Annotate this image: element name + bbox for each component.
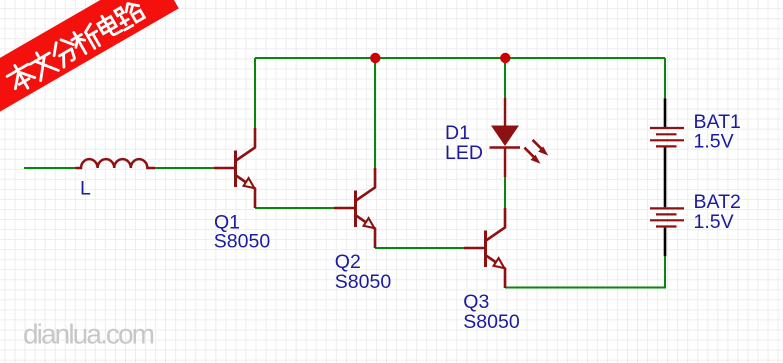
LED D1 [490, 98, 549, 177]
wire LED cathode to Q3 collector [504, 177, 506, 209]
glyph lu [114, 0, 146, 30]
glyph fen [49, 36, 81, 69]
svg-text:S8050: S8050 [335, 271, 392, 293]
glyph ben [4, 59, 38, 94]
wire Q1 emitter to Q2 base [255, 207, 335, 209]
svg-text:Q2: Q2 [335, 251, 361, 273]
wire between batteries [664, 148, 667, 208]
wire top rail [255, 57, 665, 59]
banner ribbon [0, 0, 179, 118]
wire inductor to Q1 base [155, 167, 214, 169]
svg-text:dianlua.com: dianlua.com [23, 319, 154, 350]
wire input left [24, 167, 76, 169]
transistor Q3 [464, 208, 505, 288]
svg-text:1.5V: 1.5V [694, 131, 734, 153]
junction node B [500, 53, 510, 63]
svg-text:Q3: Q3 [463, 291, 489, 313]
wire bottom rail [505, 256, 665, 287]
svg-text:BAT1: BAT1 [694, 111, 741, 133]
glyph dian [95, 11, 121, 39]
glyph wen [27, 47, 59, 81]
svg-text:L: L [80, 178, 91, 200]
svg-text:1.5V: 1.5V [694, 211, 734, 233]
wire LED anode riser [504, 58, 506, 98]
transistor Q1 [214, 128, 255, 208]
svg-text:S8050: S8050 [214, 231, 271, 253]
inductor L [76, 159, 156, 168]
battery BAT2 [650, 208, 684, 226]
battery BAT2 pin bottom [664, 228, 667, 257]
junction node A [370, 53, 380, 63]
wire Q2 collector riser [374, 58, 376, 169]
transistor Q2 [334, 168, 375, 248]
svg-text:S8050: S8050 [463, 311, 520, 333]
wire Q1 collector riser [254, 58, 256, 128]
svg-text:D1: D1 [445, 122, 470, 144]
battery BAT1 pin top [664, 98, 667, 127]
glyph xi [69, 22, 104, 56]
svg-text:LED: LED [445, 142, 483, 164]
wire right side top [664, 58, 666, 98]
svg-text:BAT2: BAT2 [694, 191, 741, 213]
wire Q2 emitter to Q3 base [375, 247, 466, 249]
battery BAT1 [650, 128, 684, 146]
